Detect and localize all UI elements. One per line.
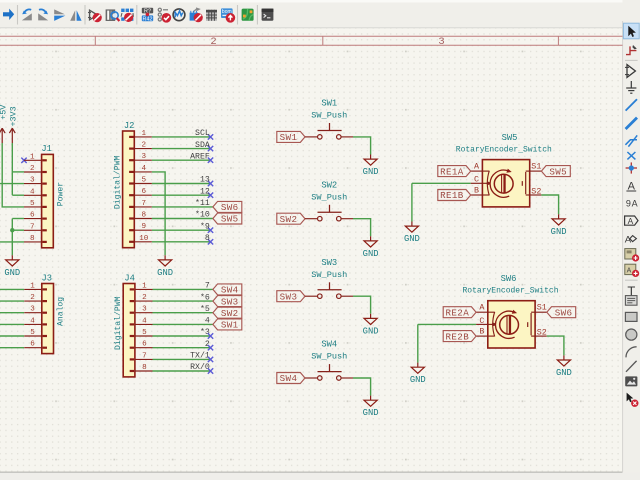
ground below J1: [4, 255, 20, 277]
pin B of SW6: [476, 327, 488, 337]
pin 9 of J2: [129, 223, 152, 231]
svg-text:8: 8: [142, 364, 147, 372]
svg-text:SDA: SDA: [195, 141, 210, 150]
svg-text:Power: Power: [56, 182, 65, 206]
svg-text:SW5: SW5: [221, 214, 239, 225]
svg-text:C: C: [479, 316, 484, 326]
wire J4 pin 5: [153, 335, 211, 337]
right toolbar: import sheet pin icon: [625, 264, 636, 274]
svg-text:7: 7: [30, 223, 35, 231]
toolbar: scripting console icon: [262, 9, 274, 21]
pin 1 of J2: [129, 130, 152, 138]
svg-text:RE2A: RE2A: [445, 307, 469, 318]
junction at J1 pin 7: [10, 228, 14, 232]
pin 1 of J3: [24, 282, 47, 290]
svg-text:Analog: Analog: [57, 297, 66, 326]
pin S1 of SW6: [535, 303, 547, 313]
pin A of SW5: [471, 162, 483, 172]
no-connect at J2 pin 1: [208, 134, 213, 139]
svg-text:Digital/PWM: Digital/PWM: [114, 156, 123, 210]
svg-text:7: 7: [142, 200, 147, 208]
connector J3 Analog header: [42, 284, 54, 354]
wire to J3 pin 4: [0, 323, 24, 325]
svg-text:9: 9: [626, 199, 631, 209]
wire J1 pin 7 branch: [12, 229, 24, 231]
wire to J3 pin 5: [0, 335, 24, 337]
wire SW4 pin2 to GND: [353, 378, 371, 396]
pin S1 of SW5: [530, 162, 542, 172]
svg-text:SCL: SCL: [195, 129, 210, 138]
toolbar: paste icon: [3, 9, 14, 20]
toolbar: mirror vertically icon: [54, 9, 65, 14]
svg-text:SW4: SW4: [321, 340, 337, 350]
ground left below SW5: [404, 222, 420, 245]
wire J4 pin 2: [153, 300, 213, 302]
svg-text:SW6: SW6: [501, 274, 517, 284]
hierarchical label RE2A on pin A of SW6: [443, 307, 476, 319]
svg-text:SW4: SW4: [221, 285, 239, 296]
wire SW2 pin2 to GND: [353, 219, 371, 237]
wire J1 pin 6 to GND: [12, 218, 24, 220]
right toolbar: arc tool icon: [626, 347, 637, 358]
svg-text:C: C: [474, 175, 479, 185]
ground below SW4: [363, 396, 379, 419]
svg-text:*5: *5: [200, 304, 210, 314]
svg-text:1: 1: [142, 130, 147, 138]
svg-text:SW5: SW5: [549, 166, 567, 177]
svg-text:*9: *9: [200, 221, 210, 231]
svg-text:SW5: SW5: [502, 133, 518, 143]
wire to J3 pin 1: [0, 288, 24, 290]
svg-text:1: 1: [142, 282, 147, 290]
right toolbar: rectangle tool icon: [625, 312, 637, 321]
wire SW6 C down to GND: [417, 324, 419, 362]
svg-text:RE1B: RE1B: [440, 190, 464, 201]
pin 5 of J4: [130, 329, 153, 337]
ground right below SW6: [556, 355, 572, 378]
svg-text:4: 4: [142, 317, 147, 325]
svg-text:3: 3: [438, 36, 444, 48]
svg-text:13: 13: [200, 176, 210, 185]
ground left below SW6: [410, 363, 426, 386]
toolbar: rotate CW icon: [38, 13, 48, 20]
svg-text:*10: *10: [195, 210, 210, 220]
connector J4 Digital/PWM header: [123, 284, 135, 377]
wire J2 pin 8: [152, 218, 213, 220]
svg-text:2: 2: [210, 36, 216, 48]
svg-text:RotaryEncoder_Switch: RotaryEncoder_Switch: [462, 287, 558, 296]
svg-text:6: 6: [142, 188, 147, 196]
svg-text:3: 3: [142, 306, 147, 314]
svg-text:S2: S2: [537, 328, 547, 338]
pin C of SW5: [471, 175, 483, 185]
pin 2 of J4: [130, 294, 153, 302]
right toolbar: highlight net icon: [626, 46, 636, 54]
pin 1 of J4: [130, 282, 153, 290]
svg-text:+5V: +5V: [0, 105, 8, 120]
svg-text:B: B: [474, 185, 479, 195]
ground below SW3: [363, 314, 379, 337]
wire pin C of SW6 to GND: [418, 323, 476, 325]
pin 6 of J1: [24, 212, 47, 220]
ground right below SW5: [551, 214, 567, 237]
svg-text:GND: GND: [551, 227, 567, 237]
svg-text:3: 3: [142, 153, 147, 161]
pin B of SW5: [471, 185, 483, 195]
svg-text:J2: J2: [124, 121, 135, 131]
pin 6 of J4: [130, 341, 153, 349]
svg-text:5: 5: [142, 329, 147, 337]
svg-text:SW1: SW1: [321, 99, 337, 109]
wire J4 pin 6: [153, 347, 211, 349]
wire pin S2 of SW6 to GND: [547, 336, 564, 355]
wire J2 pin 4 to GND: [152, 172, 165, 255]
svg-text:SW1: SW1: [280, 132, 298, 143]
no-connect at J2 pin 10: [208, 239, 213, 244]
pin 2 of J2: [129, 142, 152, 150]
hierarchical label SW3 on J4 pin 2: [213, 296, 242, 308]
wire +3V3 to J1 pin 2: [12, 171, 24, 173]
svg-text:6: 6: [30, 212, 35, 220]
wire pin C of SW5 to GND: [412, 182, 471, 184]
svg-text:AREF: AREF: [190, 152, 210, 161]
svg-text:SW2: SW2: [221, 308, 239, 319]
svg-text:+3V3: +3V3: [8, 106, 18, 126]
pin 1 of J1: [24, 153, 47, 161]
wire J4 pin 4: [153, 323, 213, 325]
svg-text:SW_Push: SW_Push: [311, 352, 347, 362]
toolbar: footprint assign icon: [121, 9, 133, 21]
right toolbar: place power port icon: [630, 81, 632, 88]
right toolbar: select cursor icon: [628, 26, 636, 37]
toolbar: edit symbols icon: [90, 10, 98, 20]
wire J4 pin 1: [153, 288, 213, 290]
svg-text:2: 2: [30, 294, 35, 302]
wire J2 pin 10: [152, 241, 211, 243]
svg-text:*3: *3: [200, 327, 210, 337]
svg-text:SW1: SW1: [221, 320, 239, 331]
hierarchical label SW4 on J4 pin 1: [213, 284, 242, 296]
pin 7 of J4: [130, 352, 153, 360]
svg-text:4: 4: [30, 317, 35, 325]
ground below J2: [157, 255, 173, 277]
svg-text:1: 1: [30, 153, 35, 161]
svg-text:SW2: SW2: [321, 180, 337, 190]
svg-text:8: 8: [142, 212, 147, 220]
svg-text:GND: GND: [363, 408, 379, 418]
wire GND vertical at J1: [11, 219, 13, 256]
hierarchical label SW5 on pin S1 of SW5: [541, 166, 570, 178]
right toolbar: wire tool icon: [626, 99, 637, 110]
hierarchical label SW6 on J2 pin 7: [213, 201, 242, 213]
hierarchical label SW4 (sheet pin input): [277, 373, 305, 385]
svg-text:2: 2: [142, 142, 147, 150]
no-connect at J2 pin 6: [208, 193, 213, 198]
pin 2 of J1: [24, 165, 47, 173]
svg-text:S1: S1: [537, 303, 547, 313]
connector J1 Power header: [42, 154, 54, 247]
wire J4 pin 3: [153, 312, 213, 314]
right toolbar: selection highlight: [623, 23, 639, 39]
svg-text:J3: J3: [42, 273, 53, 283]
svg-text:4: 4: [30, 188, 35, 196]
toolbar: mirror horizontally icon: [70, 10, 75, 21]
ground below SW2: [363, 236, 379, 258]
svg-text:8: 8: [205, 234, 210, 243]
pin 7 of J1: [24, 223, 47, 231]
svg-text:10: 10: [139, 235, 149, 243]
right toolbar: global label icon: [625, 216, 638, 225]
svg-text:5: 5: [30, 329, 35, 337]
toolbar separators: [17, 5, 19, 25]
svg-text:3: 3: [30, 306, 35, 314]
svg-text:TX/1: TX/1: [190, 351, 210, 361]
svg-text:S1: S1: [531, 162, 541, 172]
pin 10 of J2: [129, 235, 152, 243]
svg-text:4: 4: [205, 317, 210, 326]
wire J2 pin 2: [152, 148, 211, 150]
svg-text:5: 5: [30, 200, 35, 208]
svg-text:2: 2: [142, 294, 147, 302]
toolbar: annotate icon: [142, 8, 153, 14]
wire SW1 pin2 to GND: [353, 137, 371, 155]
svg-text:GND: GND: [363, 167, 379, 177]
pin A of SW6: [476, 303, 488, 313]
pin 3 of J2: [129, 153, 152, 161]
sheet frame border: [0, 36, 623, 48]
svg-text:1: 1: [30, 282, 35, 290]
svg-text:B: B: [479, 327, 484, 337]
hierarchical label SW1 on J4 pin 4: [213, 319, 242, 331]
toolbar: simulator icon: [173, 9, 185, 21]
wire J4 pin 7: [153, 358, 211, 360]
pin 5 of J1: [24, 200, 47, 208]
svg-text:SW_Push: SW_Push: [311, 111, 347, 121]
svg-text:SW4: SW4: [280, 373, 298, 384]
pin 4 of J1: [24, 188, 47, 196]
pin 8 of J1: [24, 235, 47, 243]
toolbar: open PCB editor icon: [242, 9, 254, 21]
hierarchical label SW5 on J2 pin 8: [213, 213, 242, 225]
hierarchical label RE1B on pin B of SW5: [438, 190, 471, 202]
toolbar: bill of materials icon: [221, 8, 233, 18]
svg-text:J1: J1: [41, 144, 52, 154]
svg-text:SW2: SW2: [280, 214, 298, 225]
ground below SW1: [363, 155, 379, 178]
pin 3 of J3: [24, 306, 47, 314]
svg-text:SW3: SW3: [280, 291, 298, 302]
svg-text:A: A: [628, 216, 634, 226]
no-connect at J2 pin 5: [208, 181, 213, 186]
no-connect at J1 pin 1: [21, 158, 26, 163]
hierarchical label SW2 on J4 pin 3: [213, 307, 242, 319]
svg-text:J4: J4: [124, 273, 135, 283]
wire +5V to J1 pin 5: [2, 143, 24, 207]
wire J2 pin 6: [152, 194, 211, 196]
svg-text:GND: GND: [363, 326, 379, 336]
wire J2 pin 9: [152, 229, 211, 231]
hierarchical label SW2 (sheet pin input): [277, 213, 305, 225]
rotary encoder SW5 body: [482, 160, 529, 207]
svg-text:S2: S2: [531, 186, 541, 196]
pin 2 of J3: [24, 294, 47, 302]
switch SW2 symbol: [305, 205, 353, 221]
pin 6 of J2: [129, 188, 152, 196]
svg-text:GND: GND: [410, 375, 426, 385]
wire pin S2 of SW5 to GND: [541, 195, 558, 214]
pin 4 of J4: [130, 317, 153, 325]
svg-text:4: 4: [142, 165, 147, 173]
right toolbar: circle tool icon: [626, 329, 637, 340]
pin S2 of SW6: [535, 328, 547, 338]
wire SW3 pin2 to GND: [353, 296, 371, 314]
wire to J3 pin 3: [0, 312, 24, 314]
svg-text:RotaryEncoder_Switch: RotaryEncoder_Switch: [456, 146, 552, 155]
toolbar: symbol library browser icon: [106, 9, 116, 21]
right toolbar: no connect icon: [627, 152, 635, 159]
pin 7 of J2: [129, 200, 152, 208]
wire to J3 pin 6: [0, 347, 24, 349]
pin 5 of J2: [129, 177, 152, 185]
svg-text:3: 3: [30, 177, 35, 185]
svg-text:GND: GND: [157, 268, 173, 278]
svg-text:2: 2: [205, 340, 210, 349]
right toolbar: place symbol icon: [627, 65, 635, 78]
svg-text:8: 8: [30, 235, 35, 243]
svg-text:7: 7: [142, 352, 147, 360]
pin C of SW6: [476, 316, 488, 326]
top toolbar: [3, 5, 273, 25]
pin 5 of J3: [24, 329, 47, 337]
hierarchical label SW3 (sheet pin input): [277, 291, 305, 303]
svg-text:*11: *11: [195, 198, 210, 208]
no-connect at J2 pin 2: [208, 146, 213, 151]
right toolbar: bus entry icon: [625, 135, 637, 146]
no-connect at J2 pin 3: [208, 158, 213, 163]
right toolbar: hierarchical sheet icon: [625, 249, 636, 259]
svg-text:SW3: SW3: [321, 258, 337, 268]
no-connect at J4 pin 8: [208, 368, 213, 373]
right toolbar: bus tool icon: [626, 118, 637, 129]
right toolbar: image tool icon: [625, 376, 637, 386]
right toolbar: delete tool icon: [627, 393, 634, 403]
right toolbar: [623, 23, 639, 407]
no-connect at J4 pin 5: [208, 333, 213, 338]
svg-text:9: 9: [142, 223, 147, 231]
svg-text:A: A: [632, 199, 638, 209]
switch SW1 symbol: [305, 123, 353, 139]
toolbar: assign footprints icon: [196, 7, 201, 11]
hierarchical label RE1A on pin A of SW5: [438, 166, 471, 178]
svg-text:SW3: SW3: [221, 296, 239, 307]
hierarchical label SW1 (sheet pin input): [277, 131, 305, 143]
svg-text:GND: GND: [363, 249, 379, 259]
pin 3 of J4: [130, 306, 153, 314]
right toolbar: junction icon: [630, 162, 632, 173]
no-connect at J2 pin 9: [208, 228, 213, 233]
svg-text:5: 5: [142, 177, 147, 185]
svg-text:RE2B: RE2B: [445, 331, 469, 342]
no-connect at J4 pin 7: [208, 357, 213, 362]
svg-text:SW6: SW6: [221, 202, 239, 213]
wire SW5 C down to GND: [411, 183, 413, 221]
wire J2 pin 7: [152, 206, 213, 208]
pin 3 of J1: [24, 177, 47, 185]
no-connect at J4 pin 6: [208, 345, 213, 350]
pin 6 of J3: [24, 341, 47, 349]
hierarchical label SW6 on pin S1 of SW6: [547, 307, 576, 319]
svg-text:SW6: SW6: [555, 307, 573, 318]
switch SW3 symbol: [305, 282, 353, 298]
hierarchical label RE2B on pin B of SW6: [443, 331, 476, 343]
wire +3V3 vertical: [11, 143, 13, 195]
svg-text:SW_Push: SW_Push: [311, 270, 347, 280]
toolbar: rotate CCW icon: [22, 13, 32, 20]
pin 4 of J2: [129, 165, 152, 173]
wire to J1 pin 8: [0, 241, 24, 243]
toolbar: symbol fields table icon: [206, 10, 217, 21]
svg-text:RX/0: RX/0: [190, 362, 210, 372]
wire J4 pin 8: [153, 370, 211, 372]
pin 8 of J4: [130, 364, 153, 372]
right toolbar: line tool icon: [626, 361, 637, 372]
svg-text:A: A: [627, 267, 632, 274]
wire to J3 pin 2: [0, 300, 24, 302]
svg-text:2: 2: [30, 165, 35, 173]
svg-text:RE1A: RE1A: [440, 166, 464, 177]
pin S2 of SW5: [530, 186, 542, 196]
svg-text:GND: GND: [404, 234, 420, 244]
power symbol +3V3: [8, 106, 18, 143]
power symbol +5V: [0, 105, 8, 143]
wire J2 pin 5: [152, 183, 211, 185]
svg-text:Digital/PWM: Digital/PWM: [114, 296, 123, 350]
svg-text:12: 12: [200, 187, 210, 196]
right toolbar: text box tool icon: [625, 296, 637, 306]
connector J2 Digital/PWM header: [123, 131, 135, 248]
svg-text:*6: *6: [200, 292, 210, 302]
svg-text:7: 7: [205, 282, 210, 291]
switch SW4 symbol: [305, 364, 353, 380]
svg-text:R42: R42: [143, 16, 153, 22]
svg-text:6: 6: [30, 341, 35, 349]
toolbar: electrical rules check icon: [158, 8, 168, 21]
pin 4 of J3: [24, 317, 47, 325]
wire J2 pin 3: [152, 159, 211, 161]
wire to J1 pin 3: [0, 183, 24, 185]
pin 8 of J2: [129, 212, 152, 220]
svg-text:6: 6: [142, 341, 147, 349]
wire +3V3 to J1 pin 4: [12, 194, 24, 196]
svg-text:GND: GND: [556, 368, 572, 378]
wire J2 pin 1: [152, 136, 211, 138]
svg-text:SW_Push: SW_Push: [311, 192, 347, 202]
rotary encoder SW6 body: [488, 301, 535, 348]
svg-text:GND: GND: [4, 268, 20, 278]
